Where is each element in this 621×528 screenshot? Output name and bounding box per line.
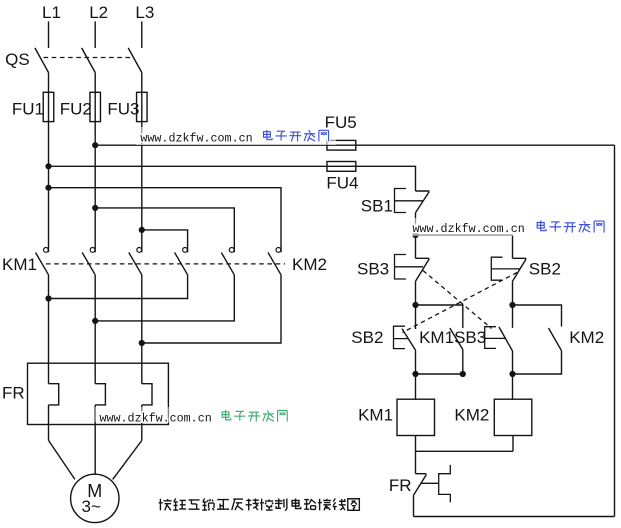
wire control feed lower (L1 to FU4 to SB1) xyxy=(49,166,416,191)
contact KM2-2 xyxy=(221,247,234,275)
button SB2 NO xyxy=(402,305,416,374)
wire KM2-1 bottom link xyxy=(49,275,188,299)
control: SB1 NC button xyxy=(416,191,430,235)
wire right rail xyxy=(614,145,616,516)
motor M circle xyxy=(71,474,119,522)
node SB1-out xyxy=(412,232,418,238)
svg-text:KM1: KM1 xyxy=(358,406,393,425)
fuse FU3 xyxy=(137,92,148,121)
wire control feed upper (L2 to FU5 to right rail) xyxy=(95,144,614,146)
wire L2 to KM2 contact 2 xyxy=(95,208,234,247)
watermark 2 blue xyxy=(408,218,611,236)
contact KM1-1 xyxy=(36,247,49,275)
node L1-KM2c3 xyxy=(45,185,51,191)
switch QS pole 3 xyxy=(128,48,142,73)
svg-text:SB2: SB2 xyxy=(529,260,561,279)
link SB3 dashed xyxy=(423,271,492,329)
svg-text:FU4: FU4 xyxy=(326,174,358,193)
svg-text:SB2: SB2 xyxy=(351,328,383,347)
wire to FR contact xyxy=(415,451,417,473)
contact KM1-3 xyxy=(129,247,142,275)
node right-branch-top xyxy=(509,302,515,308)
wire L2 top xyxy=(94,21,96,48)
FR heater 3 xyxy=(142,384,152,441)
node U-link xyxy=(45,295,51,301)
wire KM1-2 down xyxy=(94,275,96,384)
FR heater 2 xyxy=(95,384,105,475)
wire KM1-1 down xyxy=(48,275,50,384)
wire branch KM2aux top xyxy=(513,305,562,327)
node L2-KM2c2 xyxy=(92,205,98,211)
fuse FU2 xyxy=(90,92,101,121)
svg-text:KM1: KM1 xyxy=(2,255,37,274)
wire SB3nc top xyxy=(415,235,417,256)
svg-text:KM2: KM2 xyxy=(292,255,327,274)
wire SB1 out horizontal xyxy=(416,235,513,256)
svg-text:3~: 3~ xyxy=(82,497,101,516)
contact KM2-1 xyxy=(175,247,188,275)
svg-text:L1: L1 xyxy=(42,3,61,22)
wire motor lead right xyxy=(113,440,142,479)
wire branch KM1aux top xyxy=(416,305,463,328)
svg-text:SB3: SB3 xyxy=(454,328,486,347)
node right-branch-bot xyxy=(509,371,515,377)
wire L2 xyxy=(94,73,96,247)
node KM1aux-bot xyxy=(460,371,466,377)
switch QS pole 2 xyxy=(82,48,96,73)
contact KM2-3 xyxy=(268,247,281,275)
button SB3 NC xyxy=(416,257,430,306)
FR heater 1 xyxy=(49,384,59,441)
title 按钮互锁正反转控制电路接线图 xyxy=(159,498,360,510)
wire L1 QS-to-fuse-to-KM1 xyxy=(48,73,50,247)
wire bottom return xyxy=(414,516,615,518)
svg-text:FR: FR xyxy=(2,384,25,403)
svg-text:FU3: FU3 xyxy=(107,100,139,119)
node left-branch-bot xyxy=(412,371,418,377)
watermark 3 green xyxy=(95,407,292,425)
wire L3 top xyxy=(141,21,143,48)
node W-link xyxy=(139,340,145,346)
node L2-FU5 xyxy=(92,142,98,148)
contact KM2 aux xyxy=(513,328,562,374)
wire aux bottom link xyxy=(416,373,463,375)
svg-text:KM1: KM1 xyxy=(419,328,454,347)
svg-text:FU1: FU1 xyxy=(12,100,44,119)
svg-text:www.dzkfw.com.cn: www.dzkfw.com.cn xyxy=(140,132,252,146)
coil KM2 xyxy=(494,399,532,435)
fuse FU5 xyxy=(327,140,356,150)
contact KM1-2 xyxy=(82,247,95,275)
svg-text:L3: L3 xyxy=(135,3,154,22)
svg-text:www.dzkfw.com.cn: www.dzkfw.com.cn xyxy=(100,411,212,425)
fuse FU4 xyxy=(327,162,356,172)
wire coil bottoms join xyxy=(416,436,514,452)
coil KM1 xyxy=(397,399,435,435)
wire motor lead left xyxy=(49,440,75,479)
button SB3 NO xyxy=(499,305,513,374)
wire KM2-3 bottom link xyxy=(142,275,281,343)
watermark 1 blue xyxy=(136,127,336,146)
button SB2 NC xyxy=(513,257,527,306)
svg-text:QS: QS xyxy=(5,50,30,69)
contact KM1 aux xyxy=(450,328,463,374)
svg-text:www.dzkfw.com.cn: www.dzkfw.com.cn xyxy=(413,222,525,236)
wire KM1-3 down xyxy=(141,275,143,384)
KM linkage dashed xyxy=(46,263,285,265)
svg-text:FU2: FU2 xyxy=(60,100,92,119)
svg-text:KM2: KM2 xyxy=(454,406,489,425)
wire L3 to KM2 contact 1 xyxy=(142,230,188,247)
QS linkage dashed xyxy=(44,57,135,59)
wire L1 to KM2 contact 3 xyxy=(49,188,282,247)
switch QS pole 1 xyxy=(35,48,49,73)
link SB2 dashed xyxy=(403,273,518,333)
wire to KM1 coil xyxy=(415,374,417,399)
svg-text:L2: L2 xyxy=(89,3,108,22)
svg-text:FR: FR xyxy=(389,476,412,495)
wire L1 top xyxy=(48,21,50,48)
svg-text:SB1: SB1 xyxy=(361,197,393,216)
FR contact NC xyxy=(414,474,427,517)
fuse FU1 xyxy=(43,92,54,121)
wire to KM2 coil xyxy=(512,374,514,399)
node left-branch-top xyxy=(412,302,418,308)
node L3-KM2c1 xyxy=(139,227,145,233)
node V-link xyxy=(92,318,98,324)
svg-text:SB3: SB3 xyxy=(357,260,389,279)
FR contact element xyxy=(422,465,451,503)
svg-text:KM2: KM2 xyxy=(569,328,604,347)
wire KM2-2 bottom link xyxy=(95,275,234,321)
node L1-FU4 xyxy=(45,163,51,169)
wire L3 xyxy=(141,73,143,247)
FR box xyxy=(28,363,169,424)
